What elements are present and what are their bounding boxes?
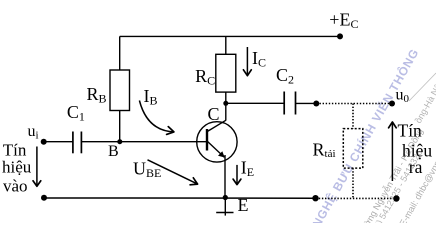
arrow IB curved [139, 101, 174, 135]
transistor Q1 emitter lead with arrow [207, 141, 224, 157]
svg-text:vào: vào [3, 177, 28, 196]
arrow UBE diagonal [148, 160, 198, 185]
node u0 terminal dot [389, 101, 395, 107]
wire top rail [120, 35, 340, 37]
node emitter junction dot [223, 195, 228, 200]
arrow output signal up [389, 122, 397, 181]
wire RC bottom to junction [225, 92, 227, 103]
wire dotted Rtai to bottom [352, 168, 354, 198]
node bottom-left terminal dot [41, 195, 47, 201]
resistor RB [110, 70, 130, 111]
wire input to C1 [44, 141, 73, 143]
node input terminal dot [41, 139, 47, 145]
node +Ec terminal dot [337, 33, 343, 39]
node after C2 dot [313, 101, 319, 107]
transistor Q1 base bar [206, 129, 208, 151]
node bottom-mid dot [312, 195, 318, 201]
transistor Q1 collector lead [207, 120, 226, 131]
resistor RC [216, 54, 236, 92]
wire C2 to output node [296, 102, 317, 104]
svg-text:C: C [208, 104, 220, 124]
wire bottom dotted [319, 197, 393, 199]
wire dotted down to Rtai [352, 104, 354, 129]
wire bottom rail solid [44, 197, 316, 199]
node collector junction dot [223, 101, 228, 106]
svg-text:B: B [108, 143, 119, 160]
wire emitter vertical [224, 155, 226, 198]
svg-text:hiệu: hiệu [2, 157, 32, 176]
svg-text:ra: ra [409, 157, 423, 177]
ground symbol [216, 198, 233, 216]
resistor Rtai dashed [343, 129, 363, 169]
label Tin hieu ra [398, 120, 433, 176]
wire junction to C2 [226, 102, 284, 104]
arrow IC [243, 47, 251, 76]
capacitor C1 [73, 132, 82, 154]
wire collector vertical [225, 103, 227, 120]
watermark gray diagonal rule [409, 73, 436, 101]
wire RC top vertical [225, 36, 227, 54]
node B junction dot [117, 139, 122, 144]
wire dotted to u0 [320, 103, 390, 105]
capacitor C2 [284, 92, 295, 115]
wire C1 to base [81, 141, 206, 143]
arrow IE [233, 165, 241, 185]
wire RB bottom vertical [119, 111, 121, 142]
wire RB top vertical [119, 36, 121, 70]
svg-text:Tín: Tín [398, 120, 423, 140]
label Tin hieu vao [2, 141, 32, 196]
node bottom-right terminal dot [393, 195, 399, 201]
arrow input signal down [33, 147, 41, 187]
transistor Q1 body [197, 122, 237, 162]
